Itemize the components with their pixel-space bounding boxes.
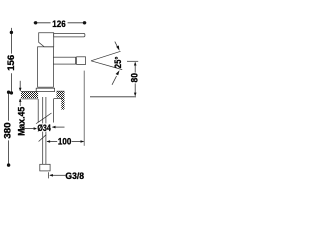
angle arrow upper	[115, 42, 118, 48]
svg-text:G3/8: G3/8	[65, 171, 84, 181]
svg-text:156: 156	[6, 55, 16, 71]
dimension Max.45 leader elbow arrow	[20, 128, 33, 130]
svg-text:25°: 25°	[113, 56, 123, 68]
escutcheon base	[36, 88, 54, 91]
shank tube below deck	[37, 99, 39, 123]
diameter 34 leader arrow	[52, 126, 64, 128]
outlet extension line	[83, 71, 85, 146]
supply hose right line	[45, 97, 47, 164]
lever bar	[54, 33, 85, 37]
dimension 380 line	[8, 91, 10, 167]
dimension 156 line	[10, 28, 12, 94]
svg-text:100: 100	[58, 137, 71, 147]
G3/8 extension tick	[48, 172, 50, 178]
outlet level tick	[127, 60, 138, 62]
G3/8 leader arrow	[50, 174, 66, 176]
svg-text:380: 380	[2, 122, 12, 138]
angle arrow lower	[112, 76, 117, 85]
svg-text:126: 126	[52, 19, 65, 29]
dimension 126 line	[34, 22, 87, 24]
spray fan upper edge	[91, 51, 121, 61]
dimension 80 line with arrows	[134, 63, 136, 96]
svg-text:Ø34: Ø34	[37, 123, 51, 133]
faucet body	[38, 47, 54, 87]
break tick upper	[36, 113, 52, 124]
hose end fitting	[40, 164, 50, 171]
water plane line	[90, 96, 136, 98]
svg-text:Max.45: Max.45	[16, 107, 26, 136]
countertop hatch left	[21, 92, 38, 99]
dimension Max.45 line with arrows	[19, 81, 21, 106]
spout	[53, 57, 75, 64]
svg-text:80: 80	[129, 73, 139, 82]
supply hose left line	[42, 97, 44, 164]
break tick lower	[39, 135, 47, 142]
dimension 126 end dots	[34, 21, 37, 24]
lever base	[39, 33, 54, 47]
spray fan lower edge	[91, 61, 122, 70]
diameter 34 label	[37, 123, 52, 131]
dimension 380 end dots	[7, 91, 10, 94]
dimension 156 end dots	[10, 31, 13, 34]
aerator tip	[77, 57, 86, 65]
dimension 100 line with arrows	[47, 141, 83, 143]
countertop hatch right with edge leg	[57, 91, 65, 109]
